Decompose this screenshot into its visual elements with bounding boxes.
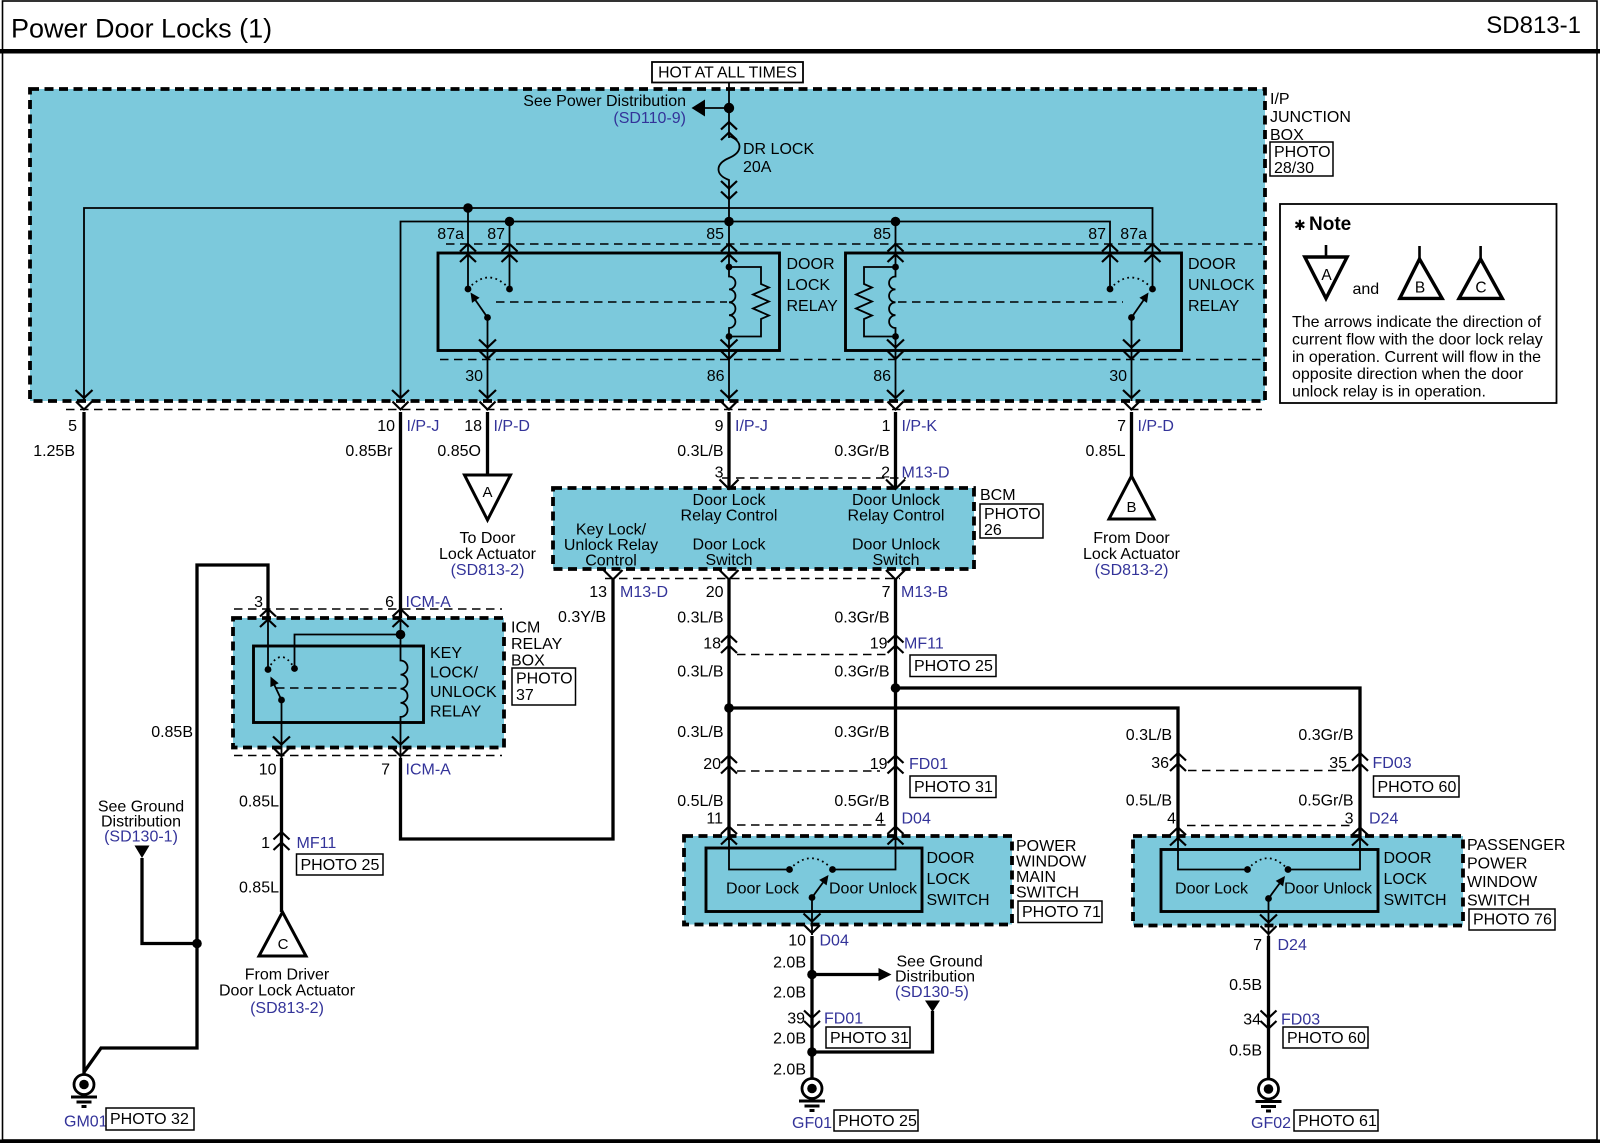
svg-text:PHOTO 61: PHOTO 61 — [1298, 1113, 1377, 1130]
svg-text:3: 3 — [715, 465, 724, 482]
svg-text:2.0B: 2.0B — [773, 1031, 806, 1048]
svg-text:Door Lock: Door Lock — [693, 537, 767, 554]
svg-text:28/30: 28/30 — [1274, 160, 1314, 177]
svg-text:Door Unlock: Door Unlock — [1284, 881, 1373, 898]
svg-text:C: C — [278, 936, 289, 953]
svg-text:0.3Gr/B: 0.3Gr/B — [834, 610, 889, 627]
svg-text:0.5Gr/B: 0.5Gr/B — [834, 793, 889, 810]
svg-text:0.3Y/B: 0.3Y/B — [558, 609, 606, 626]
svg-text:Lock Actuator: Lock Actuator — [439, 546, 537, 563]
svg-text:POWER: POWER — [1016, 838, 1076, 855]
svg-text:SWITCH: SWITCH — [1467, 893, 1530, 910]
svg-text:87a: 87a — [437, 226, 464, 243]
svg-text:See Power Distribution: See Power Distribution — [523, 93, 686, 110]
svg-text:0.5B: 0.5B — [1229, 1043, 1262, 1060]
svg-text:10: 10 — [377, 418, 395, 435]
svg-text:0.5B: 0.5B — [1229, 977, 1262, 994]
svg-text:0.85L: 0.85L — [1085, 443, 1125, 460]
svg-text:0.85B: 0.85B — [151, 724, 193, 741]
svg-text:UNLOCK: UNLOCK — [430, 684, 497, 701]
svg-text:in operation. Current will flo: in operation. Current will flow in the — [1292, 349, 1541, 366]
svg-text:87: 87 — [487, 226, 505, 243]
svg-text:(SD130-5): (SD130-5) — [895, 984, 969, 1001]
svg-text:opposite direction when the do: opposite direction when the door — [1292, 366, 1524, 383]
svg-text:DR LOCK: DR LOCK — [743, 141, 814, 158]
svg-text:ICM-A: ICM-A — [406, 762, 452, 779]
svg-text:SWITCH: SWITCH — [1016, 885, 1079, 902]
svg-text:30: 30 — [1109, 368, 1127, 385]
svg-text:Switch: Switch — [705, 552, 752, 569]
svg-text:I/P-J: I/P-J — [407, 418, 440, 435]
svg-text:and: and — [1353, 281, 1380, 298]
svg-text:7: 7 — [1253, 937, 1262, 954]
svg-text:Door Lock: Door Lock — [693, 492, 767, 509]
svg-text:1.25B: 1.25B — [33, 443, 75, 460]
svg-text:C: C — [1475, 280, 1486, 297]
svg-text:The arrows indicate the direct: The arrows indicate the direction of — [1292, 314, 1542, 331]
svg-text:SWITCH: SWITCH — [927, 892, 990, 909]
svg-text:HOT AT ALL TIMES: HOT AT ALL TIMES — [658, 65, 797, 82]
svg-text:From Door: From Door — [1093, 530, 1170, 547]
svg-text:37: 37 — [516, 687, 534, 704]
svg-text:JUNCTION: JUNCTION — [1270, 109, 1351, 126]
svg-text:ICM-A: ICM-A — [406, 594, 452, 611]
svg-text:PHOTO 25: PHOTO 25 — [301, 857, 380, 874]
svg-text:3: 3 — [254, 594, 263, 611]
svg-text:(SD130-1): (SD130-1) — [104, 829, 178, 846]
svg-text:PHOTO 71: PHOTO 71 — [1022, 904, 1101, 921]
svg-text:4: 4 — [1167, 811, 1176, 828]
svg-text:current flow with the door loc: current flow with the door lock relay — [1292, 331, 1543, 348]
svg-text:MF11: MF11 — [297, 835, 337, 852]
svg-text:87: 87 — [1088, 226, 1106, 243]
svg-text:20: 20 — [703, 756, 721, 773]
svg-text:SWITCH: SWITCH — [1384, 892, 1447, 909]
svg-text:FD03: FD03 — [1373, 755, 1412, 772]
svg-text:Note: Note — [1309, 214, 1351, 235]
svg-text:PHOTO 60: PHOTO 60 — [1378, 779, 1457, 796]
svg-text:(SD813-2): (SD813-2) — [1095, 562, 1169, 579]
svg-text:RELAY: RELAY — [787, 298, 839, 315]
svg-text:10: 10 — [788, 933, 806, 950]
svg-text:(SD110-9): (SD110-9) — [613, 110, 686, 127]
svg-text:I/P-K: I/P-K — [902, 418, 938, 435]
svg-text:I/P-J: I/P-J — [735, 418, 768, 435]
svg-text:To Door: To Door — [459, 530, 516, 547]
svg-text:86: 86 — [707, 368, 725, 385]
svg-text:Door Unlock: Door Unlock — [852, 492, 941, 509]
svg-text:✱: ✱ — [1294, 217, 1306, 233]
svg-text:0.85L: 0.85L — [239, 880, 279, 897]
svg-text:PHOTO: PHOTO — [984, 506, 1041, 523]
svg-text:2.0B: 2.0B — [773, 955, 806, 972]
svg-text:MAIN: MAIN — [1016, 869, 1056, 886]
svg-text:PHOTO 60: PHOTO 60 — [1287, 1030, 1366, 1047]
svg-text:RELAY: RELAY — [1188, 298, 1240, 315]
svg-text:2: 2 — [881, 465, 890, 482]
svg-text:M13-B: M13-B — [901, 584, 948, 601]
svg-text:34: 34 — [1243, 1012, 1261, 1029]
svg-text:BCM: BCM — [980, 487, 1016, 504]
svg-text:0.3Gr/B: 0.3Gr/B — [834, 664, 889, 681]
svg-text:30: 30 — [465, 368, 483, 385]
svg-text:UNLOCK: UNLOCK — [1188, 277, 1255, 294]
svg-text:From Driver: From Driver — [245, 967, 330, 984]
svg-text:35: 35 — [1329, 755, 1347, 772]
svg-text:19: 19 — [870, 636, 888, 653]
svg-text:Relay Control: Relay Control — [681, 508, 778, 525]
svg-text:10: 10 — [259, 762, 277, 779]
svg-text:20A: 20A — [743, 159, 772, 176]
svg-text:PASSENGER: PASSENGER — [1467, 837, 1565, 854]
svg-text:Door Unlock: Door Unlock — [852, 537, 941, 554]
svg-text:ICM: ICM — [511, 620, 540, 637]
svg-text:DOOR: DOOR — [927, 850, 975, 867]
svg-text:DOOR: DOOR — [1384, 850, 1432, 867]
svg-text:LOCK: LOCK — [787, 277, 831, 294]
svg-text:18: 18 — [464, 418, 482, 435]
svg-text:0.5Gr/B: 0.5Gr/B — [1298, 793, 1353, 810]
svg-text:Power Door Locks (1): Power Door Locks (1) — [11, 14, 272, 44]
svg-text:GF02: GF02 — [1251, 1115, 1291, 1132]
svg-text:85: 85 — [873, 226, 891, 243]
svg-text:LOCK/: LOCK/ — [430, 665, 479, 682]
svg-text:POWER: POWER — [1467, 856, 1527, 873]
svg-text:D24: D24 — [1278, 937, 1307, 954]
svg-text:PHOTO: PHOTO — [516, 671, 573, 688]
svg-text:LOCK: LOCK — [927, 871, 971, 888]
svg-text:RELAY: RELAY — [430, 704, 482, 721]
svg-text:Control: Control — [585, 553, 637, 570]
svg-text:D04: D04 — [820, 933, 849, 950]
svg-text:39: 39 — [787, 1011, 805, 1028]
svg-text:20: 20 — [706, 584, 724, 601]
svg-text:Door Lock: Door Lock — [1175, 881, 1249, 898]
svg-text:FD03: FD03 — [1281, 1012, 1320, 1029]
svg-text:PHOTO 31: PHOTO 31 — [830, 1030, 909, 1047]
svg-text:87a: 87a — [1120, 226, 1147, 243]
svg-text:GM01: GM01 — [64, 1114, 108, 1131]
svg-text:PHOTO 76: PHOTO 76 — [1473, 912, 1552, 929]
svg-text:FD01: FD01 — [824, 1011, 863, 1028]
svg-text:Switch: Switch — [872, 552, 919, 569]
svg-text:6: 6 — [385, 594, 394, 611]
svg-text:2.0B: 2.0B — [773, 985, 806, 1002]
svg-text:unlock relay is in operation.: unlock relay is in operation. — [1292, 384, 1486, 401]
svg-text:18: 18 — [703, 636, 721, 653]
svg-text:PHOTO 25: PHOTO 25 — [838, 1113, 917, 1130]
svg-text:D24: D24 — [1369, 811, 1398, 828]
svg-text:Door Lock: Door Lock — [726, 881, 800, 898]
svg-text:DOOR: DOOR — [1188, 256, 1236, 273]
svg-text:0.85O: 0.85O — [437, 443, 481, 460]
svg-text:SD813-1: SD813-1 — [1486, 12, 1581, 39]
svg-text:85: 85 — [706, 226, 724, 243]
svg-text:M13-D: M13-D — [620, 584, 668, 601]
svg-text:5: 5 — [68, 418, 77, 435]
svg-text:FD01: FD01 — [909, 756, 948, 773]
svg-text:B: B — [1126, 499, 1136, 516]
svg-text:Key Lock/: Key Lock/ — [576, 522, 647, 539]
svg-text:I/P: I/P — [1270, 91, 1290, 108]
svg-text:1: 1 — [261, 835, 270, 852]
svg-text:PHOTO 31: PHOTO 31 — [914, 779, 993, 796]
svg-text:0.3Gr/B: 0.3Gr/B — [834, 443, 889, 460]
svg-text:0.3L/B: 0.3L/B — [1126, 727, 1172, 744]
svg-text:0.3L/B: 0.3L/B — [677, 664, 723, 681]
svg-text:7: 7 — [882, 584, 891, 601]
svg-text:86: 86 — [873, 368, 891, 385]
svg-text:11: 11 — [706, 811, 723, 828]
svg-text:PHOTO 32: PHOTO 32 — [110, 1111, 189, 1128]
svg-text:DOOR: DOOR — [787, 256, 835, 273]
svg-text:0.3L/B: 0.3L/B — [677, 443, 723, 460]
svg-text:KEY: KEY — [430, 645, 462, 662]
svg-text:A: A — [1321, 267, 1332, 284]
svg-text:36: 36 — [1151, 755, 1169, 772]
svg-text:A: A — [482, 484, 492, 501]
svg-text:0.3L/B: 0.3L/B — [677, 610, 723, 627]
svg-text:7: 7 — [381, 762, 390, 779]
svg-text:LOCK: LOCK — [1384, 871, 1428, 888]
svg-text:I/P-D: I/P-D — [494, 418, 530, 435]
svg-text:I/P-D: I/P-D — [1138, 418, 1174, 435]
svg-text:Door Lock Actuator: Door Lock Actuator — [219, 983, 356, 1000]
svg-text:(SD813-2): (SD813-2) — [250, 1000, 324, 1017]
svg-text:B: B — [1415, 280, 1425, 297]
svg-text:0.3Gr/B: 0.3Gr/B — [834, 724, 889, 741]
svg-text:26: 26 — [984, 522, 1002, 539]
svg-text:D04: D04 — [902, 811, 931, 828]
svg-text:13: 13 — [589, 584, 607, 601]
svg-text:1: 1 — [882, 418, 891, 435]
svg-text:9: 9 — [715, 418, 724, 435]
svg-text:Relay Control: Relay Control — [848, 508, 945, 525]
svg-text:M13-D: M13-D — [902, 465, 950, 482]
svg-text:WINDOW: WINDOW — [1467, 874, 1538, 891]
svg-text:MF11: MF11 — [904, 636, 944, 653]
svg-text:Unlock Relay: Unlock Relay — [564, 537, 658, 554]
svg-text:2.0B: 2.0B — [773, 1062, 806, 1079]
svg-text:WINDOW: WINDOW — [1016, 854, 1087, 871]
svg-text:7: 7 — [1117, 418, 1126, 435]
svg-text:0.3L/B: 0.3L/B — [677, 724, 723, 741]
svg-text:PHOTO: PHOTO — [1274, 144, 1331, 161]
svg-text:0.85L: 0.85L — [239, 794, 279, 811]
svg-text:0.5L/B: 0.5L/B — [677, 793, 723, 810]
svg-text:GF01: GF01 — [792, 1115, 832, 1132]
svg-text:0.85Br: 0.85Br — [345, 443, 393, 460]
svg-text:Distribution: Distribution — [895, 969, 975, 986]
svg-text:BOX: BOX — [511, 653, 545, 670]
svg-text:0.5L/B: 0.5L/B — [1126, 793, 1172, 810]
svg-text:0.3Gr/B: 0.3Gr/B — [1298, 727, 1353, 744]
svg-text:(SD813-2): (SD813-2) — [451, 562, 525, 579]
svg-text:PHOTO 25: PHOTO 25 — [914, 658, 993, 675]
svg-text:Door Unlock: Door Unlock — [829, 881, 918, 898]
svg-text:Lock Actuator: Lock Actuator — [1083, 546, 1181, 563]
svg-text:RELAY: RELAY — [511, 636, 563, 653]
